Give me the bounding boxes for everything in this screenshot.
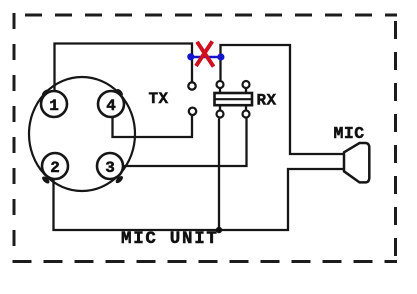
- wire pin1 to TX terminal: [55, 44, 193, 93]
- pin 1: [41, 91, 67, 117]
- microphone horn MIC: [344, 143, 369, 182]
- wire pin 3 to RX bottom-right terminal: [123, 119, 247, 167]
- connector J1 outline: [29, 77, 135, 191]
- svg-text:MIC: MIC: [334, 124, 365, 143]
- TX terminal 2: [189, 108, 196, 115]
- wire TX terminal 2 to pin 4: [113, 116, 193, 138]
- label TX: [149, 90, 169, 108]
- scan blob at pin2/ellipse joint: [41, 175, 51, 185]
- svg-text:MIC UNIT: MIC UNIT: [121, 229, 219, 249]
- scan blob at pin1/ellipse joint: [41, 88, 50, 97]
- label MIC: [334, 124, 365, 143]
- scan blob at pin4/ellipse joint: [115, 88, 124, 97]
- svg-text:3: 3: [105, 159, 115, 177]
- blue dot left: [187, 53, 194, 60]
- pin 3: [97, 153, 123, 179]
- svg-text:TX: TX: [149, 90, 169, 108]
- svg-text:RX: RX: [257, 92, 277, 110]
- RX jumper bars: [215, 93, 253, 105]
- svg-text:2: 2: [50, 159, 60, 177]
- pin 2: [42, 153, 68, 179]
- junction dot on bottom bus: [216, 227, 222, 233]
- svg-text:4: 4: [106, 97, 116, 115]
- blue jumper link annotation: [191, 56, 221, 59]
- RX jumper block terminals: [217, 81, 250, 118]
- label RX: [257, 92, 277, 110]
- scan blob at pin3/ellipse joint: [114, 175, 124, 185]
- wire pin 2 bottom bus to MIC bottom lead: [54, 169, 345, 230]
- label MIC UNIT: [121, 229, 219, 249]
- wire RX top-left terminal to MIC top lead: [221, 45, 345, 154]
- dashed enclosure frame (decorative): [12, 13, 397, 263]
- wire RX bottom-left terminal to bottom bus: [218, 119, 220, 231]
- TX terminal 1: [188, 82, 195, 89]
- svg-text:1: 1: [49, 97, 59, 115]
- pin 4: [98, 91, 124, 117]
- red X cross-out annotation: [196, 41, 214, 66]
- blue dot right: [217, 53, 224, 60]
